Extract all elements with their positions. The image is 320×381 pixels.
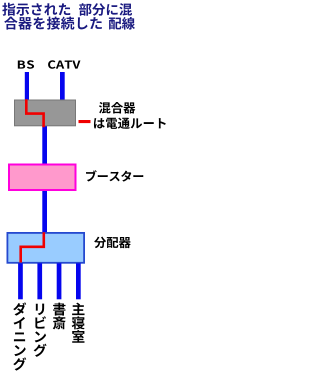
label CATV	[48, 60, 80, 68]
label ダイニング	[13, 302, 26, 370]
label 書斎	[53, 303, 66, 330]
splitter box 分配器	[7, 233, 84, 263]
label BS	[18, 60, 34, 68]
red route through mixer	[26, 99, 43, 127]
label ブースター	[86, 170, 143, 181]
label 混合器	[99, 102, 135, 114]
wire: CATV input	[60, 72, 65, 100]
title line 2b: 配線	[109, 17, 135, 30]
wire: booster to splitter	[42, 190, 47, 234]
wire: output 2 (living)	[37, 263, 42, 299]
booster box ブースター	[9, 165, 76, 191]
wire: BS antenna input	[25, 72, 29, 100]
label リビング	[34, 304, 47, 357]
title line 1b: 部分に混	[79, 3, 132, 16]
wire: output 4 (master bedroom)	[76, 263, 81, 299]
title line 2a: 合器を接続した	[4, 17, 102, 30]
legend text は電通ルート	[94, 118, 166, 129]
label 分配器	[94, 237, 131, 249]
legend red dash	[79, 120, 91, 123]
label 主寝室	[72, 303, 85, 343]
wire: mixer to booster	[42, 113, 47, 165]
wire: output 1 (dining)	[18, 263, 23, 299]
title line 1a: 指示された	[2, 3, 70, 16]
red route through splitter	[21, 232, 44, 262]
wire: output 3 (study)	[57, 263, 62, 299]
mixer box 混合器	[15, 100, 76, 126]
